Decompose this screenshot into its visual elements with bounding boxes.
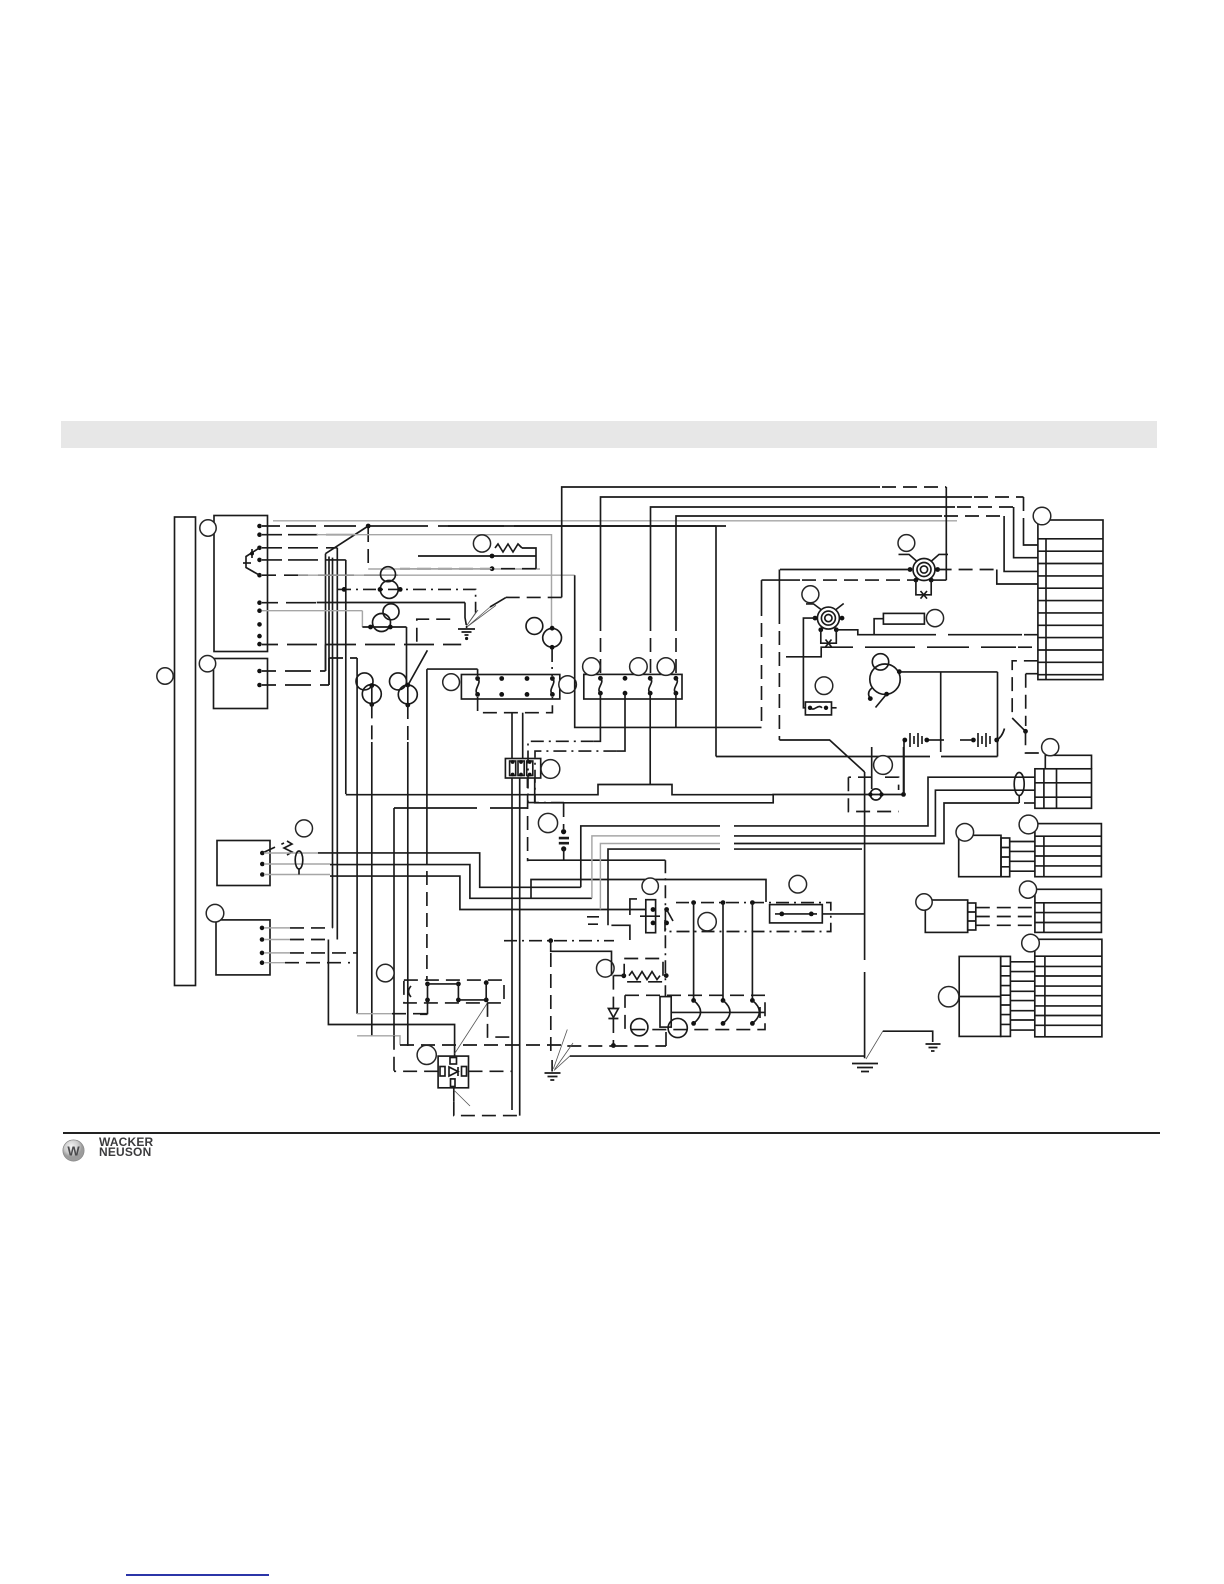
- wire X1 pin7 gray: [262, 610, 362, 612]
- callout (F3): [815, 677, 833, 695]
- vertical V6: [371, 686, 373, 705]
- solenoid bar: [660, 997, 671, 1028]
- X2 pins: [257, 669, 262, 674]
- connector strip X5: [461, 675, 559, 700]
- callout (C2): [1042, 739, 1059, 756]
- harness line N1: [581, 777, 1036, 887]
- callout (fuse block): [541, 760, 560, 779]
- X2 pin2 wire: [262, 684, 329, 686]
- wire y727.4: [575, 575, 762, 727]
- ground GND1 leaders: [467, 605, 497, 626]
- ground GND1: [466, 626, 468, 628]
- callout (X5 left): [443, 674, 460, 691]
- wire X1 pin4: [262, 559, 346, 561]
- bundle vertical V5 to y793: [345, 560, 347, 794]
- glow relay K2 dash box: [404, 980, 504, 1003]
- callout (C5): [1022, 934, 1040, 952]
- callout (G2): [874, 756, 893, 775]
- sense wire drop x940.7: [940, 672, 942, 752]
- wire X1 pin3: [262, 547, 337, 549]
- glow indicator G1: [817, 607, 839, 629]
- diode branch: [613, 976, 625, 1046]
- plug pair C3: [959, 835, 1001, 876]
- starter cables: [694, 903, 753, 1001]
- K2 foot out: [420, 1000, 428, 1014]
- long dash drop X5-relay: [426, 669, 428, 850]
- callout (C4 box): [916, 894, 932, 910]
- callout (F2): [789, 875, 807, 893]
- dash-dot wire y589: [338, 589, 476, 612]
- X1 pins: [257, 524, 262, 529]
- switch blade diagonal: [325, 526, 368, 554]
- blade to P4: [409, 650, 428, 684]
- G1 lamp loop: [821, 630, 837, 643]
- K2 right leg to rectifier: [455, 1003, 488, 1054]
- blade at ground: [490, 598, 506, 607]
- wire y756.5: [716, 756, 998, 758]
- callout (K1): [642, 878, 658, 894]
- footer rule: [63, 1132, 1160, 1134]
- callout (bus): [698, 913, 716, 931]
- callout 2 (X2): [199, 656, 215, 672]
- dash bus y1046: [567, 1030, 666, 1046]
- connector strip X6: [584, 674, 682, 699]
- gray wire pin5 long: [298, 574, 575, 576]
- starter contact arcs: [694, 1000, 760, 1023]
- X6 pin4 down: [675, 693, 677, 727]
- callout 3 (strip): [157, 668, 173, 684]
- ground GND4: [866, 1031, 883, 1059]
- indicator pair P4: [390, 673, 407, 690]
- F2 out to ground drop: [822, 913, 864, 915]
- Wacker Neuson logo text: [99, 1139, 153, 1158]
- fuse feed verticals: [511, 713, 513, 759]
- connector box X1: [214, 516, 268, 652]
- callout (X5 right): [559, 676, 577, 694]
- alternator wire y671.9: [899, 671, 997, 673]
- connector box X2: [214, 659, 268, 709]
- X3 wires right: [318, 853, 581, 887]
- S1 right foot link: [931, 579, 946, 581]
- bottom blue link line: [126, 1574, 269, 1576]
- callout 1 (X1): [200, 520, 216, 536]
- contact row symbols CB2: [960, 739, 971, 741]
- wire X1 pin5 dashed: [262, 574, 398, 576]
- callout (K2): [377, 964, 395, 982]
- wire pin1 long to x716: [448, 525, 716, 527]
- dash-dot bus y902.6: [665, 903, 831, 932]
- top line T1: [562, 487, 880, 597]
- svg-text:W: W: [67, 1144, 80, 1159]
- fuse outputs down: [511, 778, 513, 1110]
- K2 coil arc: [409, 986, 412, 997]
- wire y602.5 drop: [465, 603, 466, 626]
- wire X1 pin1 bus: [262, 525, 726, 527]
- gray top wire: [273, 520, 957, 522]
- wire y580.1: [762, 579, 801, 581]
- callout (G1): [802, 586, 819, 603]
- wire X1 pin10 dashed: [262, 644, 461, 646]
- callout (C3 box): [956, 824, 974, 842]
- indicator pair P2: [383, 604, 399, 620]
- switch blade curve: [996, 729, 1005, 741]
- bundle vertical V4: [336, 548, 338, 940]
- A1 right lead: [469, 1070, 513, 1072]
- bundle vertical V3: [332, 558, 334, 928]
- X3 resistor zig: [284, 841, 292, 855]
- battery switch feed: [778, 570, 780, 611]
- top line T4: [676, 516, 942, 617]
- relay K1 body: [646, 900, 656, 933]
- vertical V9: [356, 658, 358, 1014]
- wire ground run y1024.5: [328, 940, 454, 1057]
- callout (C3 ladder): [1019, 815, 1038, 834]
- engine block wire y1056.1: [570, 1055, 865, 1057]
- main ground drop: [864, 772, 866, 1058]
- fuse F2: [770, 905, 823, 923]
- X6 pin2 down-left: [616, 693, 625, 751]
- wire into X5 pin1: [427, 668, 469, 670]
- dash corner glow box: [417, 619, 450, 645]
- dash-dot drop to X5 pin4: [551, 649, 553, 676]
- X6 pin3 down to L1: [649, 693, 651, 784]
- fuse F1 lead: [874, 619, 883, 635]
- riser to contact row: [903, 740, 905, 794]
- callout (C1): [1033, 507, 1051, 525]
- header band: [61, 421, 1157, 448]
- dashed stub below node: [367, 528, 369, 569]
- harness line N4: [608, 849, 862, 925]
- glow resistor R2 dash box: [624, 959, 663, 982]
- relay out bus y940.7: [504, 940, 614, 942]
- callout (X3): [296, 820, 313, 837]
- starter motor circles: [631, 1019, 648, 1036]
- pilot leads: [872, 747, 904, 792]
- wire X1 pin2: [262, 534, 354, 536]
- resistor R2: [629, 972, 660, 980]
- indicator pair P3: [356, 673, 373, 690]
- diode D1: [608, 1009, 618, 1019]
- fuse output 3 to key row: [535, 778, 904, 803]
- gray wire y1035.8: [357, 1036, 400, 1045]
- cable loop ellipse: [1014, 773, 1024, 796]
- pilot lamp: [870, 789, 881, 800]
- X3 loop ellipse: [295, 851, 303, 869]
- fuse block FB: [505, 759, 540, 779]
- connector box X4: [216, 920, 270, 975]
- X3 blade dash: [262, 843, 284, 853]
- A1 left lead: [394, 1070, 438, 1072]
- ground GND3: [926, 1044, 941, 1051]
- callouts above X6: [583, 658, 601, 676]
- dash from T1 foot: [506, 596, 562, 598]
- S1 lamp loop: [916, 580, 931, 595]
- capacitor plates: [587, 917, 599, 924]
- callout (U1): [939, 987, 959, 1007]
- plug pair C4: [925, 900, 967, 932]
- ground GND2: [545, 1060, 561, 1080]
- ladder connector C2: [1035, 769, 1092, 809]
- fuse F3: [805, 702, 831, 715]
- callout (S1): [898, 535, 915, 552]
- harness line N2 gray: [592, 836, 720, 898]
- wire L1 y794 with crossover hop: [346, 785, 773, 795]
- gray wire pin2 to corner: [317, 535, 552, 627]
- battery callout: [538, 813, 557, 832]
- dash stub y658: [329, 657, 357, 659]
- bundle vertical V2: [328, 557, 330, 686]
- X5 below bracket: [478, 697, 553, 713]
- vertical V8: [393, 808, 395, 1036]
- wire y951.3: [551, 941, 612, 976]
- X5 pins: [475, 676, 480, 681]
- top line T3: [651, 507, 956, 617]
- Wacker Neuson logo mark: [58, 1135, 118, 1195]
- callout (C4 ladder): [1019, 881, 1036, 898]
- rectifier A1: [438, 1056, 468, 1088]
- wire to ladder y634.7: [836, 630, 1022, 635]
- ground GND2 leaders: [553, 1030, 573, 1071]
- gray wire y1013.7: [357, 1013, 392, 1015]
- ignition switch S1: [913, 559, 935, 581]
- X2 pin1 wire: [262, 670, 326, 672]
- stub wire y808.7: [394, 807, 528, 809]
- fuse F1: [883, 613, 924, 624]
- resistor R1: [495, 544, 522, 552]
- S1 right dashed to ladder: [938, 569, 997, 571]
- callout (X4): [206, 904, 224, 922]
- node on pin1 line: [366, 524, 371, 529]
- callout (F1): [926, 610, 943, 627]
- resistor R1 callout: [473, 535, 490, 552]
- relay K1 bracket: [611, 899, 637, 940]
- K2 contacts: [425, 982, 430, 987]
- callout (R2): [597, 960, 615, 978]
- X1 internal jumper: [246, 548, 260, 575]
- regulator ground wire: [883, 1031, 933, 1042]
- indicator pair P1: [381, 567, 396, 582]
- wire X1 pin6: [262, 602, 316, 604]
- wire y526 corner: [715, 526, 717, 757]
- X3 gray wires: [264, 852, 318, 854]
- X5 fuse waves: [476, 679, 554, 695]
- G1 left lead down: [803, 618, 815, 708]
- ladder connector C1 (top right): [1038, 520, 1103, 680]
- dash drop to ground: [550, 953, 552, 1051]
- battery B1: [563, 803, 565, 829]
- R1 loop wiring: [522, 548, 536, 569]
- feed wire y569.5: [780, 569, 910, 571]
- gray drop to pair: [361, 611, 363, 627]
- alternator G2: [872, 654, 888, 670]
- top line T2: [601, 497, 973, 617]
- gray wire y569: [368, 568, 540, 570]
- wire to ladder y646.4: [786, 647, 1016, 657]
- dash drops to X6 pins: [601, 617, 677, 674]
- bundle vertical V1: [325, 554, 327, 671]
- ladder feeds from bottom cells: [1012, 661, 1038, 718]
- X6 pin1 down-left: [594, 693, 601, 741]
- harness line N3 gray: [600, 844, 720, 910]
- connector box X3: [217, 841, 270, 886]
- alternator riser to key row: [997, 672, 999, 757]
- X6 fuse waves: [599, 678, 677, 693]
- battery box bottom rail: [528, 859, 666, 861]
- starter dash-dot box: [625, 995, 765, 1029]
- vertical V7: [407, 685, 409, 705]
- regulator U1 with plug C5: [959, 956, 1001, 1036]
- pair P5: [526, 618, 543, 635]
- A1 bottom lead: [453, 1088, 455, 1102]
- vertical to pair P4: [406, 627, 408, 685]
- callout (A1): [417, 1045, 436, 1064]
- wire y627: [362, 626, 406, 628]
- dash to rectifier lead: [393, 1036, 395, 1072]
- left terminal strip bar: [175, 517, 196, 986]
- riser x761.5: [761, 580, 763, 602]
- fuses: [510, 761, 516, 776]
- dash-dot pilot box: [848, 777, 898, 811]
- dash-dot drop to starter: [664, 860, 666, 996]
- X4 pin wires: [264, 927, 290, 929]
- solenoid link: [671, 1007, 765, 1018]
- contact row symbols CB1: [902, 738, 907, 743]
